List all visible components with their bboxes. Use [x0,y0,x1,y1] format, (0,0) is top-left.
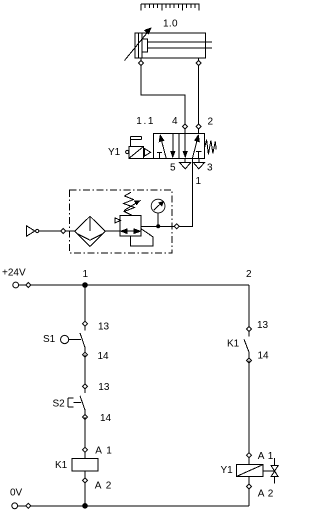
wire K1 contact to Y1 coil [248,361,250,465]
svg-text:14: 14 [98,351,110,362]
node cylinder left port [139,61,144,66]
pressure regulator [115,216,141,237]
wire rung2 from rail [248,285,250,337]
junction rung1 top [82,282,88,288]
svg-text:Y1: Y1 [108,147,121,158]
svg-text:S1: S1 [43,334,56,345]
ruler scale [141,4,199,11]
junction gauge stem [156,224,160,228]
node K1 A1 [83,447,88,452]
node S2 14 [83,415,88,420]
filter [75,216,106,246]
node +24V [26,283,31,288]
ground rail 0V [15,505,249,507]
regulator adjust arrow [124,200,141,210]
svg-text:0V: 0V [10,488,23,499]
svg-text:1: 1 [83,269,89,280]
node Y1 A1 [247,453,252,458]
wire K1 coil to 0V [84,471,86,506]
valve right square: blocked port 3 [196,152,201,159]
svg-text:14: 14 [258,351,270,362]
svg-text:5: 5 [170,163,176,174]
gauge [151,199,165,226]
valve right square: flow 4 to 5 [183,134,188,159]
valve 1.1 body [153,134,204,159]
valve left square: blocked port 5 [157,152,162,158]
valve right square: flow 1 to 2 [192,134,200,158]
contact K1 [244,339,249,360]
wire rung1 rail to S1 [84,285,86,331]
node cylinder right port [196,61,201,66]
svg-text:A 2: A 2 [95,481,112,492]
valve return spring [205,140,217,154]
svg-text:+24V: +24V [2,268,26,279]
svg-text:14: 14 [100,413,112,424]
svg-text:2: 2 [208,117,214,128]
node K1 A2 [83,478,88,483]
node valve port 4 [183,124,188,129]
node valve port 2 [196,124,201,129]
cylinder 1.0 [135,33,212,58]
junction rung1 bottom [82,503,88,509]
node service unit out [174,224,179,229]
solenoid pin node [126,150,129,153]
svg-text:A 1: A 1 [258,451,274,462]
node 0V [26,503,31,508]
terminal circle +24V [13,282,19,288]
contact S1 [61,333,86,355]
wire S2 to K1 coil [84,417,86,458]
wire cylinder left port to valve port 4 [141,58,185,134]
svg-text:1: 1 [196,176,202,187]
valve exhaust 3 triangle [194,158,205,169]
supply rail +24V [16,284,249,286]
svg-text:2: 2 [246,269,252,280]
solenoid Y1 pilot [129,147,153,159]
svg-text:S2: S2 [53,399,66,410]
regulator spring [124,192,135,215]
svg-text:3: 3 [207,163,213,174]
service unit dashed enclosure [70,190,173,253]
wire Y1 coil to 0V [248,476,250,505]
svg-text:A 1: A 1 [95,446,112,457]
relay coil K1 [72,458,98,471]
svg-text:1.0: 1.0 [163,19,178,30]
svg-text:13: 13 [98,382,110,393]
node K1 13 [247,327,252,332]
svg-text:K1: K1 [55,460,68,471]
wire S1 to S2 [84,355,86,393]
svg-text:A 2: A 2 [258,489,274,500]
svg-text:13: 13 [98,322,110,333]
wire filter to regulator [105,230,120,232]
svg-text:Y1: Y1 [221,465,234,476]
node S1 13 [83,321,88,326]
valve exhaust 5 triangle [180,158,191,169]
terminal circle 0V [12,503,18,509]
svg-text:K1: K1 [227,339,240,350]
svg-text:4: 4 [172,116,178,127]
wire regulator out [141,225,174,227]
node S1 14 [83,352,88,357]
node K1 14 [247,358,252,363]
node Y1 A2 [247,484,252,489]
node S2 13 [83,384,88,389]
valve left square: flow 2 to 3 [170,134,175,159]
valve link symbol [263,458,278,483]
solenoid coil Y1 [237,465,264,477]
svg-text:1.1: 1.1 [136,116,155,127]
compressed air source [27,226,62,236]
node air source out [61,229,66,234]
svg-text:13: 13 [257,320,269,331]
wire air source to filter [65,230,74,232]
wire cylinder right port to valve port 2 [198,58,200,134]
wire valve port 1 to service unit [179,158,192,226]
regulator relief loop [131,229,153,246]
contact S2 [68,396,85,417]
cylinder adjust arrow [125,27,152,60]
solenoid manual override [131,137,142,147]
valve left square: flow 1 to 4 [159,134,167,158]
